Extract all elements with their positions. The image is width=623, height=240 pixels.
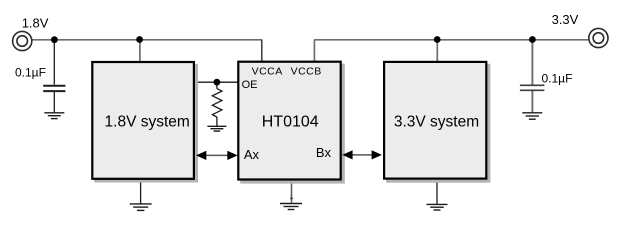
svg-text:HT0104: HT0104 <box>262 114 319 131</box>
svg-text:0.1µF: 0.1µF <box>15 66 46 80</box>
svg-text:OE: OE <box>242 79 258 91</box>
svg-text:1.8V system: 1.8V system <box>105 113 190 130</box>
svg-text:VCCB: VCCB <box>291 66 322 78</box>
svg-text:Bx: Bx <box>316 145 332 160</box>
svg-text:VCCA: VCCA <box>252 66 283 78</box>
svg-text:3.3V: 3.3V <box>552 12 579 27</box>
svg-text:3.3V system: 3.3V system <box>394 114 479 131</box>
svg-text:1.8V: 1.8V <box>22 16 49 31</box>
svg-text:Ax: Ax <box>244 147 260 162</box>
svg-text:0.1µF: 0.1µF <box>542 72 573 86</box>
